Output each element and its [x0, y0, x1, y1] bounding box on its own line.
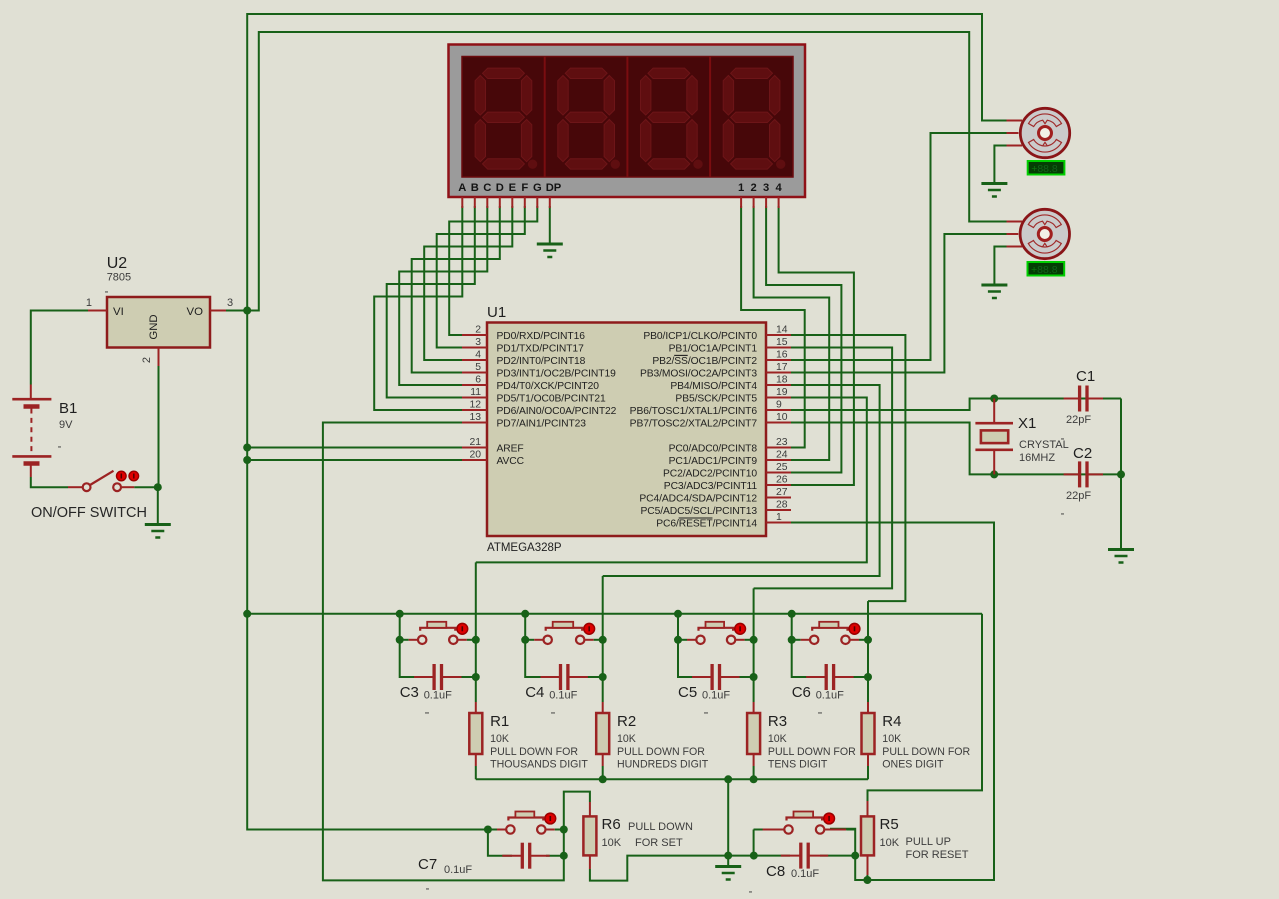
wire button4 right column: [867, 601, 869, 702]
pin stub: [88, 310, 107, 312]
node +5V rail left: [243, 610, 251, 618]
servo1 pin signal: [1007, 132, 1019, 134]
svg-text:PULL UP: PULL UP: [906, 836, 951, 848]
wire U1 PD7 to SET button: [323, 423, 590, 881]
wire +5V to servo1 V+: [247, 14, 1006, 311]
servo1 angle display: [1028, 161, 1065, 175]
wire U1 pin14 to button4: [791, 335, 905, 601]
R3 bottom lead: [753, 754, 755, 766]
wire VI to battery: [31, 311, 88, 385]
R2 top lead: [602, 702, 604, 713]
wire display seg D to U1: [412, 206, 500, 373]
pin stub: [210, 310, 226, 312]
wire +5V to servo2 V+: [247, 32, 1006, 311]
node crystal top: [990, 395, 998, 403]
svg-text:PB3/MOSI/OC2A/PCINT3: PB3/MOSI/OC2A/PCINT3: [640, 369, 757, 380]
U1 pin 19 stub: [766, 397, 791, 399]
wire display digit 2 to U1 pin 24: [754, 206, 830, 460]
svg-text:PC2/ADC2/PCINT10: PC2/ADC2/PCINT10: [663, 469, 757, 480]
svg-text:U2: U2: [107, 255, 128, 272]
U1 pin 3 stub: [462, 347, 487, 349]
display pin B: [474, 197, 476, 208]
capacitor C6: [806, 664, 853, 690]
svg-text:F: F: [521, 182, 528, 194]
ground crystal: [1108, 550, 1134, 563]
wire R4 bottom lead: [867, 766, 869, 779]
svg-text:C5: C5: [678, 684, 697, 701]
svg-text:0.1uF: 0.1uF: [424, 690, 452, 702]
svg-text:0.1uF: 0.1uF: [444, 864, 472, 876]
svg-text:R2: R2: [617, 713, 636, 730]
display pin E: [511, 197, 513, 208]
wire C6 right lead: [850, 676, 868, 678]
wire C7 right lead: [546, 855, 564, 857]
svg-text:PULL DOWN FOR: PULL DOWN FOR: [882, 746, 970, 758]
node rail btn3: [674, 610, 682, 618]
node C7 right: [560, 852, 568, 860]
svg-text:PB1/OC1A/PCINT1: PB1/OC1A/PCINT1: [669, 344, 758, 355]
svg-text:A: A: [458, 182, 466, 194]
svg-text:GND: GND: [148, 314, 160, 339]
svg-text:0.1uF: 0.1uF: [816, 690, 844, 702]
wire VO to +5V node: [226, 310, 247, 312]
pin stub: [158, 348, 160, 367]
R6 top lead: [589, 802, 591, 816]
R4 bottom lead: [867, 754, 869, 766]
svg-text:G: G: [533, 182, 542, 194]
wire button1 left column: [400, 614, 418, 677]
node gnd line: [724, 852, 732, 860]
R5 top lead: [867, 801, 869, 816]
wire U1 pin19 to button1: [476, 398, 867, 563]
node btn3 right: [750, 636, 758, 644]
svg-text:1: 1: [86, 297, 92, 309]
display digit 4 segments: [723, 68, 785, 169]
wire display digit 3 to U1 pin 25: [766, 206, 841, 473]
servo2 pin signal: [1007, 233, 1019, 235]
svg-text:5: 5: [475, 362, 481, 373]
node btn4 right: [864, 636, 872, 644]
svg-text:1: 1: [776, 512, 782, 523]
svg-text:4: 4: [475, 350, 481, 361]
wire C8 right lead: [820, 855, 855, 857]
svg-text:B1: B1: [59, 400, 77, 417]
ground U2: [145, 525, 171, 538]
capacitor C2: [1064, 461, 1103, 487]
IC U1 ATMEGA328P body: [487, 323, 766, 537]
display digit 3 segments: [641, 68, 703, 169]
svg-text:PB2/SS/OC1B/PCINT2: PB2/SS/OC1B/PCINT2: [652, 356, 757, 367]
svg-text:AREF: AREF: [497, 444, 524, 455]
U1 pin 21 stub: [462, 447, 487, 449]
display digit separator 1: [544, 57, 546, 178]
capacitor C7: [502, 843, 549, 869]
node C2 right: [1117, 470, 1125, 478]
svg-text:PB7/TOSC2/XTAL2/PCINT7: PB7/TOSC2/XTAL2/PCINT7: [630, 419, 758, 430]
svg-text:9: 9: [776, 400, 782, 411]
svg-text:C4: C4: [525, 684, 544, 701]
display pin digit3: [765, 197, 767, 208]
svg-text:PC1/ADC1/PCINT9: PC1/ADC1/PCINT9: [669, 456, 758, 467]
svg-text:16: 16: [776, 350, 788, 361]
node btn2 left: [521, 636, 529, 644]
wire U1 pin9 XTAL1 rail: [791, 399, 1121, 411]
svg-text:C6: C6: [792, 684, 811, 701]
svg-text:U1: U1: [487, 304, 506, 321]
wire battery to switch: [31, 477, 68, 487]
svg-text:PULL DOWN FOR: PULL DOWN FOR: [490, 746, 578, 758]
svg-text:13: 13: [469, 412, 481, 423]
svg-text:PULL DOWN FOR: PULL DOWN FOR: [768, 746, 856, 758]
svg-text:PD4/T0/XCK/PCINT20: PD4/T0/XCK/PCINT20: [497, 381, 600, 392]
svg-text:PB4/MISO/PCINT4: PB4/MISO/PCINT4: [670, 381, 757, 392]
wire button1 right column: [475, 562, 477, 702]
svg-text:19: 19: [776, 387, 788, 398]
wire button4 left column: [792, 614, 810, 677]
wire display seg C to U1: [399, 206, 487, 385]
U1 pin 23 stub: [766, 447, 791, 449]
svg-text:24: 24: [776, 450, 788, 461]
wire display DP to ground: [549, 206, 551, 244]
capacitor C4: [541, 664, 588, 690]
svg-text:PC5/ADC5/SCL/PCINT13: PC5/ADC5/SCL/PCINT13: [641, 506, 758, 517]
switch SW1 ON/OFF: [68, 471, 158, 491]
svg-text:10K: 10K: [768, 733, 787, 745]
svg-text:10: 10: [776, 412, 788, 423]
wire C7 left column: [488, 830, 512, 856]
svg-text:2: 2: [141, 357, 153, 363]
svg-text:R3: R3: [768, 713, 787, 730]
svg-text:C3: C3: [400, 684, 419, 701]
7-segment display inner area: [462, 57, 793, 178]
wire button2 right column: [602, 576, 604, 702]
wire ground stem: [727, 779, 729, 866]
wire +5V to AVCC: [247, 459, 462, 461]
svg-text:PD1/TXD/PCINT17: PD1/TXD/PCINT17: [497, 344, 585, 355]
wire U1 pin17 to servo2 signal: [791, 234, 1007, 373]
node SET left: [484, 826, 492, 834]
wire C3 right lead: [458, 676, 476, 678]
wire U1 pin10 XTAL2 rail: [791, 423, 1121, 475]
U1 pin 18 stub: [766, 384, 791, 386]
U1 pin 13 stub: [462, 422, 487, 424]
U1 pin 4 stub: [462, 359, 487, 361]
svg-text:11: 11: [470, 387, 481, 398]
push button SW4 digit 3: [678, 622, 754, 644]
motor servo 2: [1020, 209, 1069, 258]
svg-text:PC3/ADC3/PCINT11: PC3/ADC3/PCINT11: [664, 481, 758, 492]
resistor R3: [747, 713, 760, 754]
svg-text:ONES DIGIT: ONES DIGIT: [882, 759, 944, 771]
svg-text:0.1uF: 0.1uF: [549, 690, 577, 702]
battery B1: [12, 385, 51, 478]
node rail btn2: [521, 610, 529, 618]
svg-text:R1: R1: [490, 713, 509, 730]
svg-text:ON/OFF SWITCH: ON/OFF SWITCH: [31, 505, 147, 521]
node rail btn1: [396, 610, 404, 618]
svg-text:10K: 10K: [880, 837, 900, 849]
wire U1 pin15 to button3: [754, 348, 893, 589]
wire ground line to C8: [754, 855, 790, 857]
wire +5V rail: [247, 613, 982, 615]
capacitor C5: [692, 664, 739, 690]
node R5 bottom: [863, 876, 871, 884]
U1 pin 26 stub: [766, 484, 791, 486]
7-segment display DISP1 frame: [449, 45, 806, 198]
node R3 gnd: [750, 775, 758, 783]
R6 bottom lead: [589, 855, 591, 869]
svg-text:3: 3: [227, 297, 233, 309]
node AREF tap: [243, 444, 251, 452]
U1 pin 10 stub: [766, 422, 791, 424]
svg-text:10K: 10K: [490, 733, 509, 745]
svg-text:R4: R4: [882, 713, 901, 730]
resistor R2: [596, 713, 609, 754]
wire display digit 4 to U1 pin 26: [779, 206, 854, 485]
wire display seg B to U1: [387, 206, 475, 398]
node AVCC tap: [243, 456, 251, 464]
display digit separator 2: [626, 57, 628, 178]
U1 pin 6 stub: [462, 384, 487, 386]
svg-text:PULL DOWN FOR: PULL DOWN FOR: [617, 746, 705, 758]
push button RESET: [754, 812, 856, 834]
svg-text:R6: R6: [602, 816, 621, 833]
svg-text:22pF: 22pF: [1066, 414, 1091, 426]
node C3 right: [472, 673, 480, 681]
svg-text:B: B: [471, 182, 479, 194]
svg-text:PB5/SCK/PCINT5: PB5/SCK/PCINT5: [675, 394, 757, 405]
wire display seg E to U1: [424, 206, 512, 360]
U1 pin 27 stub: [766, 497, 791, 499]
node btn1 left: [396, 636, 404, 644]
display pin G: [536, 197, 538, 208]
ground servo2: [981, 285, 1007, 298]
node btn1 right: [472, 636, 480, 644]
wire servo1 gnd: [994, 146, 1006, 184]
svg-text:C: C: [483, 182, 491, 194]
wire button2 left column: [525, 614, 544, 677]
U1 pin 2 stub: [462, 334, 487, 336]
svg-text:0.1uF: 0.1uF: [702, 690, 730, 702]
node SET right: [560, 826, 568, 834]
display pin digit4: [778, 197, 780, 208]
display pin D: [499, 197, 501, 208]
display pin A: [461, 197, 463, 208]
wire RESET button left to ground: [753, 830, 755, 856]
svg-text:4: 4: [775, 182, 782, 194]
capacitor C3: [414, 664, 461, 690]
svg-text:14: 14: [776, 325, 788, 336]
wire U1 pin16 to servo1 signal: [791, 133, 1007, 360]
svg-text:CRYSTAL: CRYSTAL: [1019, 439, 1069, 451]
artifact marks: [58, 291, 1064, 893]
U1 pin 17 stub: [766, 372, 791, 374]
svg-text:15: 15: [776, 337, 788, 348]
U1 pin 16 stub: [766, 359, 791, 361]
svg-text:21: 21: [469, 437, 481, 448]
push button SW2 digit 1: [400, 622, 476, 644]
wire display seg F to U1: [437, 206, 525, 348]
resistor R5: [861, 816, 874, 855]
svg-text:6: 6: [475, 375, 481, 386]
svg-text:17: 17: [776, 362, 788, 373]
servo2 pin gnd: [1007, 246, 1023, 248]
svg-text:18: 18: [776, 375, 788, 386]
svg-text:PD6/AIN0/OC0A/PCINT22: PD6/AIN0/OC0A/PCINT22: [497, 406, 617, 417]
svg-text:12: 12: [469, 400, 481, 411]
regulator U2 7805 body: [107, 297, 210, 348]
svg-text:PC6/RESET/PCINT14: PC6/RESET/PCINT14: [656, 519, 757, 530]
U1 pin 11 stub: [462, 397, 487, 399]
wire +5V vertical: [246, 311, 248, 614]
R1 bottom lead: [475, 754, 477, 766]
svg-text:3: 3: [763, 182, 769, 194]
U1 pin 25 stub: [766, 472, 791, 474]
svg-text:2: 2: [750, 182, 756, 194]
resistor R4: [862, 713, 875, 754]
svg-text:7805: 7805: [107, 272, 131, 284]
node R2 gnd: [599, 775, 607, 783]
svg-text:C2: C2: [1073, 445, 1092, 462]
svg-text:3: 3: [475, 337, 481, 348]
wire R6 bottom to ground: [590, 856, 754, 881]
display digit separator 3: [709, 57, 711, 178]
wire U2 GND down: [158, 366, 160, 487]
svg-text:X1: X1: [1018, 415, 1036, 432]
svg-text:PD0/RXD/PCINT16: PD0/RXD/PCINT16: [497, 331, 586, 342]
wire R5 bottom lead: [866, 875, 868, 880]
U1 pin 15 stub: [766, 347, 791, 349]
wire servo2 gnd: [994, 247, 1006, 286]
wire C5 right lead: [736, 676, 754, 678]
svg-text:D: D: [496, 182, 504, 194]
svg-text:ATMEGA328P: ATMEGA328P: [487, 542, 562, 554]
svg-text:27: 27: [776, 487, 788, 498]
display digit 2 segments: [558, 68, 620, 169]
display pin F: [524, 197, 526, 208]
svg-text:C7: C7: [418, 856, 437, 873]
svg-text:AVCC: AVCC: [497, 456, 525, 467]
servo1 pin gnd: [1007, 145, 1023, 147]
resistor R6: [583, 816, 596, 855]
node C6 right: [864, 673, 872, 681]
wire U1 pin18 to button2: [603, 385, 880, 576]
svg-text:25: 25: [776, 462, 788, 473]
svg-text:PD7/AIN1/PCINT23: PD7/AIN1/PCINT23: [497, 419, 587, 430]
node C5 right: [750, 673, 758, 681]
wire R3 bottom lead: [753, 766, 755, 779]
svg-text:10K: 10K: [882, 733, 901, 745]
display pin digit1: [740, 197, 742, 208]
display pin DP: [549, 197, 551, 208]
node gnd stem: [724, 775, 732, 783]
svg-text:PC0/ADC0/PCINT8: PC0/ADC0/PCINT8: [669, 444, 758, 455]
R3 top lead: [753, 702, 755, 713]
U1 pin 28 stub: [766, 509, 791, 511]
crystal X1: [975, 399, 1013, 475]
display pin digit2: [753, 197, 755, 208]
servo2 pin V+: [1007, 221, 1023, 223]
wire display seg A to U1: [374, 206, 462, 410]
node C4 right: [599, 673, 607, 681]
svg-text:TENS DIGIT: TENS DIGIT: [768, 759, 828, 771]
svg-text:10K: 10K: [602, 837, 622, 849]
wire switch node to ground: [157, 487, 159, 524]
node btn2 right: [599, 636, 607, 644]
svg-text:DP: DP: [546, 182, 562, 194]
U1 pin 9 stub: [766, 409, 791, 411]
push button SW5 digit 4: [792, 622, 868, 644]
wire R2 bottom lead: [602, 766, 604, 779]
svg-text:1: 1: [738, 182, 744, 194]
display segment pin labels ABCDEFG DP: [458, 182, 782, 194]
servo1 pin V+: [1007, 120, 1023, 122]
svg-text:PD2/INT0/PCINT18: PD2/INT0/PCINT18: [497, 356, 586, 367]
R5 bottom lead: [867, 855, 869, 875]
U1 pin 20 stub: [462, 459, 487, 461]
capacitor C8: [781, 843, 828, 869]
node crystal bottom: [990, 470, 998, 478]
wire C4 right lead: [584, 676, 603, 678]
svg-text:C1: C1: [1076, 368, 1095, 385]
svg-text:26: 26: [776, 475, 788, 486]
node C8 left gnd: [750, 852, 758, 860]
U1 pin 12 stub: [462, 409, 487, 411]
svg-text:R5: R5: [880, 816, 899, 833]
wire button3 right column: [753, 588, 755, 702]
wire display seg G to U1: [449, 206, 537, 335]
svg-text:9V: 9V: [59, 419, 73, 431]
svg-text:23: 23: [776, 437, 788, 448]
svg-text:VI: VI: [113, 306, 124, 318]
display digit 1 segments: [475, 68, 537, 169]
svg-text:E: E: [509, 182, 517, 194]
motor servo 1: [1020, 108, 1069, 157]
svg-text:PD3/INT1/OC2B/PCINT19: PD3/INT1/OC2B/PCINT19: [497, 369, 617, 380]
node switch to gnd: [154, 483, 162, 491]
wire +5V to AREF: [247, 447, 462, 449]
push button SW3 digit 2: [525, 622, 603, 644]
ground servo1: [981, 184, 1007, 197]
svg-text:VO: VO: [187, 306, 204, 318]
ground main: [715, 867, 741, 880]
svg-text:THOUSANDS DIGIT: THOUSANDS DIGIT: [490, 759, 588, 771]
svg-text:PB0/ICP1/CLKO/PCINT0: PB0/ICP1/CLKO/PCINT0: [643, 331, 757, 342]
svg-text:C8: C8: [766, 863, 785, 880]
wire button3 left column: [678, 614, 696, 677]
svg-text:PB6/TOSC1/XTAL1/PCINT6: PB6/TOSC1/XTAL1/PCINT6: [630, 406, 758, 417]
U1 RESET overline: [679, 517, 713, 519]
svg-text:PC4/ADC4/SDA/PCINT12: PC4/ADC4/SDA/PCINT12: [639, 494, 757, 505]
svg-text:0.1uF: 0.1uF: [791, 868, 819, 880]
node +5V at VO: [243, 307, 251, 315]
U1 pin 5 stub: [462, 372, 487, 374]
wire display digit 1 to U1 pin 23: [741, 206, 805, 448]
svg-text:HUNDREDS DIGIT: HUNDREDS DIGIT: [617, 759, 709, 771]
svg-text:PD5/T1/OC0B/PCINT21: PD5/T1/OC0B/PCINT21: [497, 394, 606, 405]
U1 pin 24 stub: [766, 459, 791, 461]
svg-text:+88.8: +88.8: [1031, 264, 1058, 276]
node btn3 left: [674, 636, 682, 644]
push button SET: [488, 812, 564, 834]
wire +5V to SET button: [247, 614, 497, 830]
svg-text:22pF: 22pF: [1066, 490, 1091, 502]
U1 pin 14 stub: [766, 334, 791, 336]
svg-text:10K: 10K: [617, 733, 636, 745]
U1 PB2 SS overline: [674, 354, 688, 356]
U1 pin 1 stub: [766, 522, 791, 524]
wire RESET button left lead: [754, 829, 779, 831]
